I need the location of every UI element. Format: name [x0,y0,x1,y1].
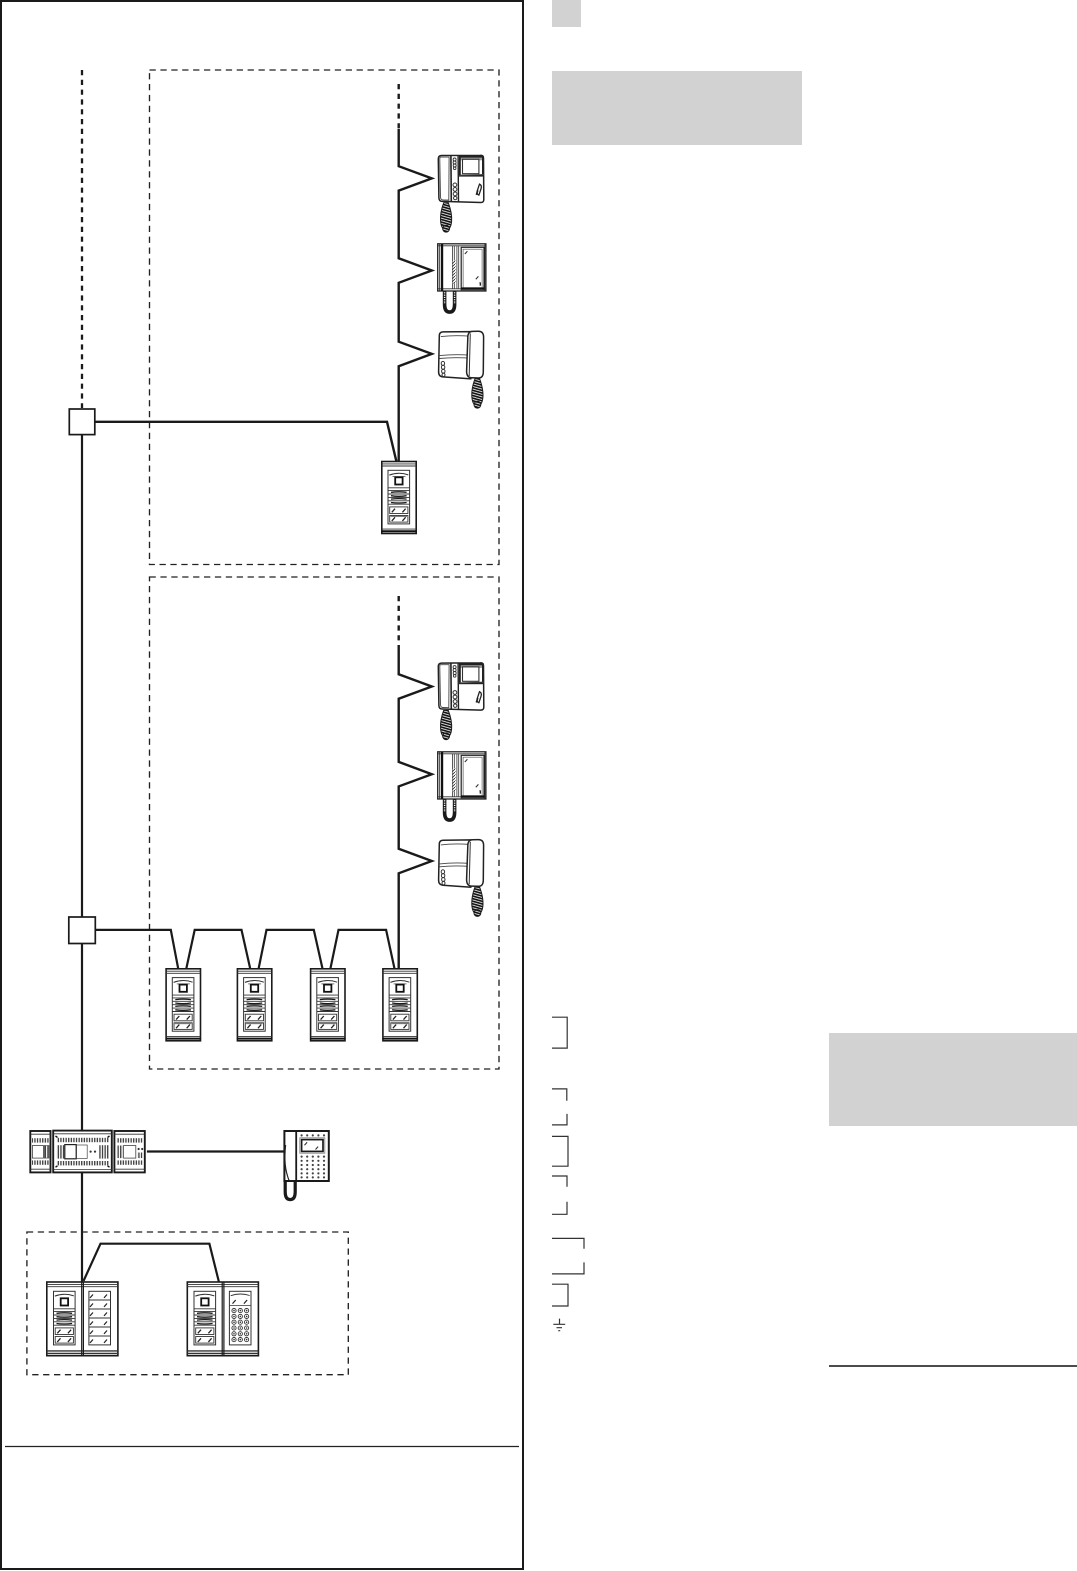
node square 1 [69,409,95,435]
wire: bus riser group 2 (dashed top) [398,596,400,646]
wire: main riser [81,435,83,917]
right column: gray note box [829,1033,1077,1126]
dashed riser line top left [81,70,83,408]
controller: module C [114,1131,144,1172]
legend bracket 4 (split) [552,1176,567,1214]
cord U [445,292,455,313]
cord [440,203,451,232]
right column: gray heading square [552,0,581,27]
wire: feeder chain from node 2 to door stations [95,930,394,968]
right column: footer rule [829,1365,1077,1367]
wire: bus riser group 1 (dashed top) [398,84,400,129]
door station group 1 [382,462,416,534]
door station row: 2 [237,969,271,1041]
audio telephone group 1 [439,331,484,379]
cord [440,710,451,739]
separator line bottom of frame [5,1446,519,1448]
wire: bus riser group 2 with branch zigzags [399,646,432,968]
legend bracket 5 (wide split) [552,1238,584,1274]
controller: module A [30,1131,50,1172]
in-house video station with keypad [284,1131,328,1200]
in-wall unit group 2 [438,752,486,799]
wire: feeder from node 1 [95,422,397,461]
wire: bus riser group 1 with branch zigzags [399,129,432,461]
page frame [1,1,523,1569]
audio telephone group 2 [439,840,484,888]
ground symbol [553,1319,565,1331]
cord [472,887,483,916]
legend bracket 2 (split) [552,1089,567,1125]
video house telephone group 2 [438,663,484,710]
door station row: 1 [166,969,200,1041]
dashed group box 2 [150,577,500,1069]
door station row: 4 [383,969,417,1041]
wire: link between entrance stations [84,1244,219,1282]
dashed group box 3 [27,1232,348,1375]
in-wall unit group 1 [438,244,486,291]
node square 2 [69,917,96,944]
wire: controller to in-house station [147,1150,284,1152]
legend bracket 6 [552,1284,568,1306]
cord U [445,800,455,821]
cord [472,379,483,408]
legend bracket 1 [552,1017,567,1048]
legend bracket 3 [552,1136,568,1166]
controller: module B (bus controller) [53,1131,112,1173]
video house telephone group 1 [438,155,484,202]
entrance station left (double) [47,1282,118,1356]
right column: gray heading band [552,71,802,145]
dashed group box 1 [150,70,500,565]
door station row: 3 [311,969,345,1041]
entrance station right (double with keypad) [187,1282,258,1356]
